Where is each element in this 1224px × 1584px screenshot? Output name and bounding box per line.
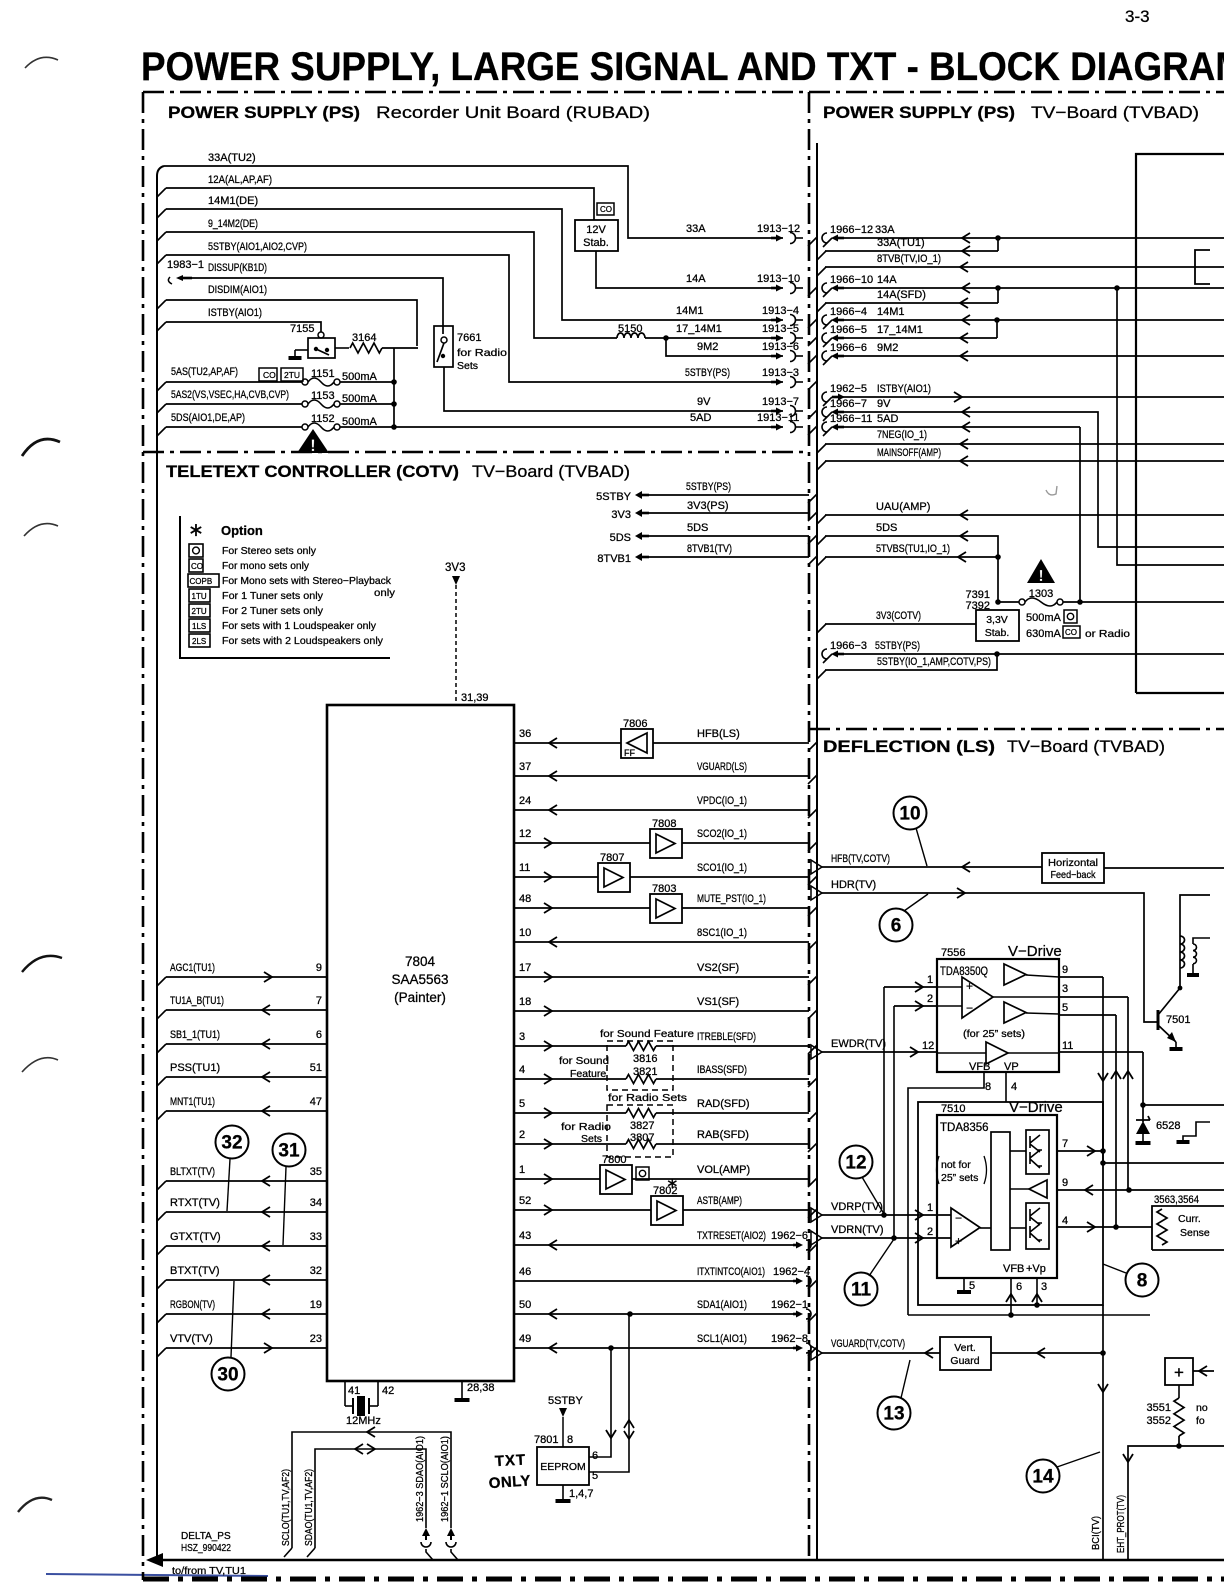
svg-text:TXT: TXT — [494, 1451, 526, 1470]
svg-text:7807: 7807 — [600, 852, 624, 864]
svg-text:4: 4 — [1062, 1215, 1068, 1227]
svg-text:1962−4: 1962−4 — [773, 1266, 810, 1278]
svg-text:12V: 12V — [586, 224, 606, 236]
svg-text:VTV(TV): VTV(TV) — [170, 1333, 213, 1345]
wire buffer3 output to pin 11 in 7556 — [1008, 1052, 1059, 1054]
regulator 3,3V Stab. — [976, 610, 1019, 641]
svg-text:35: 35 — [310, 1166, 322, 1178]
svg-text:1962−5: 1962−5 — [830, 383, 867, 395]
svg-text:2: 2 — [927, 993, 933, 1005]
svg-text:+: + — [966, 979, 973, 993]
svg-text:1LS: 1LS — [192, 622, 206, 631]
svg-text:33A: 33A — [875, 224, 895, 236]
wire SDA loop to bottom connector — [315, 1449, 426, 1548]
svg-text:14M1(DE): 14M1(DE) — [208, 195, 258, 207]
svg-text:5: 5 — [1062, 1002, 1068, 1014]
svg-text:7800: 7800 — [602, 1154, 626, 1166]
svg-text:not for: not for — [941, 1159, 971, 1171]
svg-text:EHT_PROT(TV): EHT_PROT(TV) — [1115, 1495, 1127, 1553]
svg-text:ASTB(AMP): ASTB(AMP) — [697, 1195, 742, 1207]
svg-text:4: 4 — [1011, 1081, 1017, 1093]
svg-text:14: 14 — [1032, 1467, 1054, 1488]
V-Drive IC 7510 TDA8356 outer box — [918, 1102, 1103, 1305]
svg-text:TDA8356: TDA8356 — [940, 1122, 989, 1134]
wire BCI(TV) — [1102, 1305, 1104, 1560]
node 17_14M1 to 9M2 — [663, 335, 669, 341]
svg-text:!: ! — [310, 436, 316, 455]
svg-text:For sets with 2 Loudspeake: For sets with 2 Loudspeakers only — [222, 635, 384, 647]
svg-text:VGUARD(LS): VGUARD(LS) — [697, 761, 747, 773]
svg-text:1966−5: 1966−5 — [830, 324, 867, 336]
svg-text:CO: CO — [1065, 628, 1077, 637]
svg-text:7501: 7501 — [1166, 1014, 1190, 1026]
svg-text:BTXT(TV): BTXT(TV) — [170, 1265, 220, 1277]
svg-text:Curr.: Curr. — [1178, 1213, 1201, 1225]
svg-text:V−Drive: V−Drive — [1009, 1099, 1063, 1116]
IC 7804 SAA5563 Painter — [327, 705, 514, 1381]
svg-text:10: 10 — [519, 927, 531, 939]
svg-text:TXTRESET(AIO2): TXTRESET(AIO2) — [697, 1230, 766, 1242]
svg-text:For 2 Tuner sets only: For 2 Tuner sets only — [222, 605, 324, 617]
svg-text:to/from TV,TU1: to/from TV,TU1 — [172, 1565, 246, 1577]
svg-text:(for 25” sets): (for 25” sets) — [963, 1028, 1025, 1040]
scan artifact blue pen mark — [46, 1574, 268, 1576]
svg-text:6: 6 — [316, 1029, 322, 1041]
bottom board edge wire — [150, 1559, 1224, 1562]
wire buffer2 output to pin 5 in 7556 — [1026, 1013, 1059, 1014]
svg-text:+: + — [955, 1234, 962, 1248]
svg-text:TV−Board (TVBAD): TV−Board (TVBAD) — [472, 462, 630, 481]
driver stage in 7510 — [991, 1132, 1010, 1250]
svg-text:31: 31 — [278, 1141, 300, 1162]
svg-text:19: 19 — [310, 1299, 322, 1311]
svg-text:VFB: VFB — [1003, 1263, 1024, 1275]
svg-text:MNT1(TU1): MNT1(TU1) — [170, 1096, 215, 1108]
svg-text:46: 46 — [519, 1266, 531, 1278]
svg-text:49: 49 — [519, 1333, 531, 1345]
svg-text:1966−10: 1966−10 — [830, 274, 873, 286]
scan artifact arc 1 — [25, 57, 58, 68]
svg-text:32: 32 — [310, 1265, 322, 1277]
svg-text:9_14M2(DE): 9_14M2(DE) — [208, 218, 258, 230]
svg-text:VS1(SF): VS1(SF) — [697, 996, 739, 1008]
svg-text:12A(AL,AP,AF): 12A(AL,AP,AF) — [208, 174, 272, 186]
ground of 7501 — [1175, 1042, 1177, 1047]
svg-text:33: 33 — [310, 1231, 322, 1243]
svg-text:PSS(TU1): PSS(TU1) — [170, 1062, 220, 1074]
svg-text:7: 7 — [1062, 1138, 1068, 1150]
svg-text:5AD: 5AD — [877, 413, 898, 425]
svg-text:−: − — [966, 1001, 973, 1015]
svg-text:1983−1: 1983−1 — [167, 259, 204, 271]
svg-text:8SC1(IO_1): 8SC1(IO_1) — [697, 927, 747, 939]
legend For Mono sets with Stereo-Playback only — [188, 574, 219, 587]
svg-text:for Radio: for Radio — [457, 347, 507, 359]
svg-text:VS2(SF): VS2(SF) — [697, 962, 739, 974]
svg-text:8TVB1: 8TVB1 — [597, 553, 631, 565]
svg-text:Sense: Sense — [1180, 1227, 1210, 1239]
svg-text:5DS: 5DS — [687, 522, 708, 534]
callout circle 10 — [894, 797, 927, 830]
svg-text:17: 17 — [519, 962, 531, 974]
svg-text:3V3(PS): 3V3(PS) — [687, 500, 729, 512]
output transistors bottom in 7510 — [1026, 1203, 1049, 1249]
callout circle 8 — [1126, 1264, 1159, 1297]
dashed option box sound feature resistors — [607, 1041, 673, 1090]
svg-text:1962−1 SCLO(AIO1): 1962−1 SCLO(AIO1) — [439, 1436, 451, 1522]
svg-text:5DS(AIO1,DE,AP): 5DS(AIO1,DE,AP) — [171, 412, 245, 424]
svg-text:1962−6: 1962−6 — [771, 1230, 808, 1242]
wire 14A branch down — [1117, 288, 1224, 565]
svg-text:Horizontal: Horizontal — [1048, 857, 1098, 869]
wire VFB rail — [908, 1314, 1150, 1316]
svg-text:VGUARD(TV,COTV): VGUARD(TV,COTV) — [831, 1338, 905, 1350]
svg-text:3821: 3821 — [633, 1066, 657, 1078]
svg-text:1966−7: 1966−7 — [830, 398, 867, 410]
svg-text:Stab.: Stab. — [985, 627, 1010, 639]
svg-text:2TU: 2TU — [284, 370, 300, 380]
svg-text:14M1: 14M1 — [676, 305, 704, 317]
svg-text:SCO1(IO_1): SCO1(IO_1) — [697, 862, 747, 874]
svg-text:1962−8: 1962−8 — [771, 1333, 808, 1345]
legend For 1 Tuner sets only — [189, 589, 210, 602]
svg-text:5STBY(AIO1,AIO2,CVP): 5STBY(AIO1,AIO2,CVP) — [208, 241, 307, 253]
divider right section horizontal dash-dot — [809, 728, 1224, 731]
svg-text:−: − — [955, 1211, 962, 1225]
svg-text:+: + — [1174, 1363, 1184, 1382]
svg-text:24: 24 — [519, 795, 531, 807]
svg-text:25” sets: 25” sets — [941, 1172, 978, 1184]
divider left section horizontal dash-dot — [143, 451, 809, 454]
svg-text:7556: 7556 — [941, 947, 965, 959]
svg-text:3827: 3827 — [630, 1120, 654, 1132]
scan artifact curl — [1046, 486, 1057, 495]
svg-text:For mono sets only: For mono sets only — [222, 560, 310, 572]
svg-text:8: 8 — [567, 1434, 573, 1446]
svg-text:VDRN(TV): VDRN(TV) — [831, 1224, 884, 1236]
callout circle 14 — [1027, 1460, 1060, 1493]
svg-text:SCLO(TU1,TV,AF2): SCLO(TU1,TV,AF2) — [280, 1469, 292, 1546]
svg-text:for Sound: for Sound — [559, 1055, 609, 1067]
svg-text:UAU(AMP): UAU(AMP) — [876, 501, 930, 513]
wire buffer1 output to pin 9 in 7556 — [1026, 975, 1059, 977]
svg-text:+Vp: +Vp — [1026, 1263, 1046, 1275]
svg-text:3-3: 3-3 — [1125, 7, 1150, 26]
scan artifact arc 3 — [24, 524, 58, 536]
frame top dash-dot border — [143, 91, 1224, 94]
svg-text:8: 8 — [985, 1081, 991, 1093]
svg-text:36: 36 — [519, 728, 531, 740]
voltage regulator 12V Stab. — [575, 220, 618, 251]
svg-text:ISTBY(AIO1): ISTBY(AIO1) — [877, 383, 931, 395]
svg-text:10: 10 — [899, 804, 920, 825]
scan artifact arc 2 — [22, 439, 60, 456]
svg-text:TDA8350Q: TDA8350Q — [940, 966, 988, 978]
svg-text:Guard: Guard — [950, 1355, 979, 1367]
svg-text:BCI(TV): BCI(TV) — [1090, 1516, 1102, 1550]
svg-text:IBASS(SFD): IBASS(SFD) — [697, 1064, 747, 1076]
svg-text:BLTXT(TV): BLTXT(TV) — [170, 1166, 215, 1178]
connector 1962-3 SDAO bottom — [422, 1528, 430, 1536]
svg-text:33A: 33A — [686, 223, 706, 235]
svg-text:12: 12 — [922, 1040, 934, 1052]
wire pin12 to buffer3 in 7556 — [937, 1052, 986, 1054]
svg-text:HFB(TV,COTV): HFB(TV,COTV) — [831, 853, 890, 865]
svg-text:For sets with 1 Loudspeake: For sets with 1 Loudspeaker only — [222, 620, 377, 632]
wire 7661 to 9V row — [444, 367, 783, 411]
svg-text:33A(TU2): 33A(TU2) — [208, 152, 256, 164]
svg-text:51: 51 — [310, 1062, 322, 1074]
svg-text:7808: 7808 — [652, 818, 676, 830]
svg-text:6: 6 — [891, 916, 902, 937]
svg-text:3: 3 — [519, 1031, 525, 1043]
svg-text:3816: 3816 — [633, 1053, 657, 1065]
svg-text:1966−3: 1966−3 — [830, 640, 867, 652]
to/from TV,TU1 arrow — [146, 1553, 163, 1567]
svg-text:no: no — [1196, 1402, 1208, 1414]
svg-text:17_14M1: 17_14M1 — [676, 323, 722, 335]
svg-text:3V3: 3V3 — [445, 562, 465, 574]
svg-text:1: 1 — [519, 1164, 525, 1176]
svg-text:9: 9 — [1062, 964, 1068, 976]
svg-text:7802: 7802 — [653, 1185, 677, 1197]
svg-text:TU1A_B(TU1): TU1A_B(TU1) — [170, 995, 224, 1007]
svg-text:3807: 3807 — [630, 1132, 654, 1144]
svg-text:Recorder Unit Board (RUBAD): Recorder Unit Board (RUBAD) — [376, 103, 650, 122]
svg-text:MAINSOFF(AMP): MAINSOFF(AMP) — [877, 447, 941, 459]
svg-text:V−Drive: V−Drive — [1008, 943, 1062, 960]
svg-text:3164: 3164 — [352, 332, 376, 344]
svg-text:12: 12 — [845, 1153, 866, 1174]
wire EEPROM pin 5 to SDA — [589, 1314, 629, 1472]
svg-text:3: 3 — [1041, 1281, 1047, 1293]
svg-text:33A(TU1): 33A(TU1) — [877, 237, 925, 249]
wire EEPROM pin 6 to SCL — [589, 1348, 611, 1457]
svg-text:for Radio Sets: for Radio Sets — [608, 1092, 687, 1104]
option mark O at 7800 — [636, 1167, 649, 1180]
svg-text:Vert.: Vert. — [954, 1342, 976, 1354]
svg-text:6528: 6528 — [1156, 1120, 1180, 1132]
svg-text:FF: FF — [624, 748, 635, 758]
component bracket at right edge — [1183, 1122, 1210, 1140]
option mark CO for 5AS — [259, 368, 277, 381]
svg-text:AGC1(TU1): AGC1(TU1) — [170, 962, 215, 974]
svg-text:48: 48 — [519, 893, 531, 905]
wire 12V Stab output to 14A — [596, 251, 783, 288]
svg-text:14M1: 14M1 — [877, 306, 905, 318]
svg-text:Stab.: Stab. — [583, 237, 609, 249]
svg-text:(Painter): (Painter) — [394, 990, 446, 1005]
svg-text:8TVB1(TV): 8TVB1(TV) — [687, 543, 732, 555]
svg-text:SAA5563: SAA5563 — [391, 972, 448, 987]
svg-text:∗: ∗ — [188, 520, 204, 541]
svg-text:1303: 1303 — [1029, 588, 1053, 600]
svg-text:POWER SUPPLY, LARGE SIGNAL AND: POWER SUPPLY, LARGE SIGNAL AND TXT - BLO… — [141, 45, 1224, 89]
svg-text:42: 42 — [382, 1385, 394, 1397]
svg-text:For 1 Tuner sets only: For 1 Tuner sets only — [222, 590, 324, 602]
legend For 2 Tuner sets only — [189, 604, 210, 617]
svg-text:32: 32 — [221, 1133, 242, 1154]
option mark CO above 12V Stab — [597, 203, 614, 215]
svg-text:DISDIM(AIO1): DISDIM(AIO1) — [208, 284, 267, 296]
svg-text:14A: 14A — [877, 274, 897, 286]
svg-text:VPDC(IO_1): VPDC(IO_1) — [697, 795, 747, 807]
callout circle 32 — [216, 1126, 249, 1159]
svg-text:DEFLECTION (LS): DEFLECTION (LS) — [823, 737, 995, 756]
feedback triangle in 7510 — [1029, 1180, 1047, 1198]
wire pin1 to op-amp in 7556 — [937, 986, 962, 988]
svg-text:9M2: 9M2 — [877, 342, 898, 354]
TV board bus wire — [816, 143, 818, 1560]
svg-text:3,3V: 3,3V — [986, 614, 1008, 626]
svg-text:ITXTINTCO(AIO1): ITXTINTCO(AIO1) — [697, 1266, 765, 1278]
svg-text:VFB: VFB — [969, 1061, 990, 1073]
svg-text:RTXT(TV): RTXT(TV) — [170, 1197, 220, 1209]
svg-text:5STBY: 5STBY — [596, 491, 632, 503]
svg-text:6: 6 — [592, 1450, 598, 1462]
svg-text:TV−Board (TVBAD): TV−Board (TVBAD) — [1031, 103, 1199, 122]
svg-text:5STBY: 5STBY — [548, 1395, 584, 1407]
svg-text:9: 9 — [1062, 1177, 1068, 1189]
svg-text:CO: CO — [191, 562, 203, 571]
svg-text:630mA: 630mA — [1026, 628, 1062, 640]
svg-text:11: 11 — [851, 1280, 872, 1301]
wire EHT_PROT(TV) — [1128, 1436, 1179, 1560]
svg-text:EWDR(TV): EWDR(TV) — [831, 1038, 886, 1050]
frame left dash-dot border — [142, 92, 145, 1580]
svg-text:12: 12 — [519, 828, 531, 840]
svg-text:1966−12: 1966−12 — [830, 224, 873, 236]
svg-text:SDAO(TU1,TV,AF2): SDAO(TU1,TV,AF2) — [303, 1469, 315, 1546]
svg-text:47: 47 — [310, 1096, 322, 1108]
frame bottom dash-dot border — [143, 1577, 1224, 1582]
crystal 12MHz — [345, 1405, 353, 1407]
svg-text:9V: 9V — [697, 396, 711, 408]
scan artifact arc 5 — [22, 1058, 58, 1072]
component box fragment at right edge — [1195, 250, 1210, 284]
svg-text:5STBY(PS): 5STBY(PS) — [685, 367, 730, 379]
svg-text:52: 52 — [519, 1195, 531, 1207]
legend For Stereo sets only — [189, 544, 203, 557]
legend For sets with 2 Loudspeakers only — [189, 634, 210, 647]
EEPROM ground 1,4,7 — [562, 1485, 564, 1499]
transformer secondary winding — [1193, 944, 1197, 964]
svg-text:HFB(LS): HFB(LS) — [697, 728, 740, 740]
svg-text:43: 43 — [519, 1230, 531, 1242]
svg-text:5AS(TU2,AP,AF): 5AS(TU2,AP,AF) — [171, 366, 238, 378]
svg-text:VDRP(TV): VDRP(TV) — [831, 1201, 883, 1213]
warning triangle left section — [297, 429, 329, 453]
svg-text:HDR(TV): HDR(TV) — [831, 879, 876, 891]
svg-text:8: 8 — [1137, 1271, 1148, 1292]
svg-text:14A: 14A — [686, 273, 706, 285]
dashed option box radio sets resistors — [607, 1105, 673, 1157]
svg-text:TELETEXT CONTROLLER (COTV): TELETEXT CONTROLLER (COTV) — [166, 462, 459, 481]
op-amp in 7556 — [962, 977, 993, 1018]
svg-text:18: 18 — [519, 996, 531, 1008]
svg-text:37: 37 — [519, 761, 531, 773]
svg-text:31,39: 31,39 — [461, 692, 489, 704]
svg-text:CO: CO — [263, 370, 276, 380]
svg-text:30: 30 — [217, 1365, 238, 1386]
svg-text:7NEG(IO_1): 7NEG(IO_1) — [877, 429, 927, 441]
svg-text:3552: 3552 — [1147, 1415, 1171, 1427]
svg-text:500mA: 500mA — [1026, 612, 1062, 624]
EHT box with plus — [1165, 1358, 1193, 1385]
op-amp in 7510 — [951, 1208, 980, 1247]
svg-text:fo: fo — [1196, 1415, 1205, 1427]
callout circle 11 — [845, 1273, 878, 1306]
svg-text:5AS2(VS,VSEC,HA,CVB,CVP): 5AS2(VS,VSEC,HA,CVB,CVP) — [171, 389, 289, 401]
callout circle 30 — [212, 1358, 245, 1391]
svg-text:7801: 7801 — [534, 1434, 558, 1446]
svg-text:For Stereo sets only: For Stereo sets only — [222, 545, 317, 557]
svg-text:SCL1(AIO1): SCL1(AIO1) — [697, 1333, 747, 1345]
node after 3164 — [393, 348, 395, 427]
callout circle 13 — [878, 1397, 911, 1430]
svg-text:11: 11 — [1062, 1040, 1073, 1052]
svg-text:only: only — [374, 587, 396, 599]
board divider vertical dash-dot — [808, 92, 811, 1560]
svg-text:for Radio: for Radio — [561, 1121, 611, 1133]
svg-text:6: 6 — [1016, 1281, 1022, 1293]
svg-text:1966−6: 1966−6 — [830, 342, 867, 354]
svg-text:7510: 7510 — [941, 1103, 965, 1115]
svg-text:2: 2 — [927, 1226, 933, 1238]
svg-text:or Radio: or Radio — [1085, 628, 1130, 640]
power supply block box — [1136, 154, 1224, 693]
svg-text:Feed−back: Feed−back — [1051, 869, 1097, 881]
svg-text:5DS: 5DS — [610, 532, 631, 544]
svg-text:13: 13 — [883, 1404, 904, 1425]
svg-text:for Sound Feature: for Sound Feature — [600, 1028, 694, 1040]
svg-text:TV−Board (TVBAD): TV−Board (TVBAD) — [1007, 737, 1165, 756]
svg-text:5: 5 — [519, 1098, 525, 1110]
svg-text:3V3: 3V3 — [611, 509, 631, 521]
svg-text:23: 23 — [310, 1333, 322, 1345]
svg-text:9: 9 — [316, 962, 322, 974]
svg-text:7: 7 — [316, 995, 322, 1007]
svg-text:1966−11: 1966−11 — [830, 413, 872, 425]
svg-text:28,38: 28,38 — [467, 1382, 495, 1394]
svg-text:17_14M1: 17_14M1 — [877, 324, 923, 336]
wire pin2 to op-amp in 7556 — [937, 1005, 962, 1007]
svg-text:COPB: COPB — [190, 577, 213, 586]
svg-text:5STBY(PS): 5STBY(PS) — [686, 481, 731, 493]
connector 1962-1 SCLO bottom — [447, 1528, 455, 1536]
svg-text:DISSUP(KB1D): DISSUP(KB1D) — [208, 262, 267, 274]
callout circle 12 — [840, 1146, 873, 1179]
callout circle 6 — [880, 909, 913, 942]
svg-text:RGBON(TV): RGBON(TV) — [170, 1299, 215, 1311]
buffer triangles in 7556 — [1004, 964, 1026, 985]
svg-text:VOL(AMP): VOL(AMP) — [697, 1164, 750, 1176]
ground of relay 7155 — [294, 350, 296, 356]
transformer secondary ground — [1192, 964, 1194, 973]
svg-text:GTXT(TV): GTXT(TV) — [170, 1231, 221, 1243]
svg-text:5DS: 5DS — [876, 522, 897, 534]
svg-text:ISTBY(AIO1): ISTBY(AIO1) — [208, 307, 262, 319]
svg-text:1966−4: 1966−4 — [830, 306, 867, 318]
svg-text:RAB(SFD): RAB(SFD) — [697, 1129, 749, 1141]
svg-text:POWER SUPPLY (PS): POWER SUPPLY (PS) — [168, 103, 360, 122]
legend For sets with 1 Loudspeaker only — [189, 619, 210, 632]
option legend box — [180, 516, 390, 658]
svg-text:1,4,7: 1,4,7 — [569, 1488, 593, 1500]
svg-text:VP: VP — [1004, 1061, 1019, 1073]
option mark 2TU for 5AS — [281, 368, 303, 381]
svg-text:SB1_1(TU1): SB1_1(TU1) — [170, 1029, 220, 1041]
